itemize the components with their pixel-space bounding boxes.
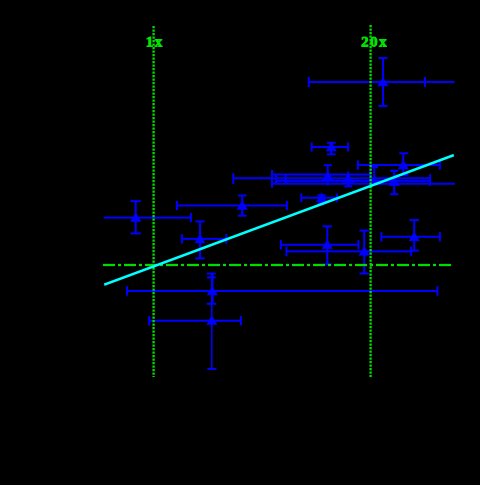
cluster line H4 [272,170,455,188]
horizontal reference dash-dot line [103,264,452,266]
data point D [358,153,440,175]
data point F [182,221,226,258]
data point H [381,220,440,251]
reference vertical line 1x [152,26,154,377]
data point A [309,58,455,106]
data point E2 [104,201,191,233]
svg-text:1x: 1x [146,34,164,50]
cluster point C3 [370,167,378,184]
cluster point E [390,171,398,194]
cyan trend line [104,155,454,285]
data point I [127,274,437,304]
data point G1 [281,226,359,264]
cluster point C1 [324,165,332,185]
data point G2 [286,231,411,274]
cluster line H1 [272,170,370,179]
data point K [301,193,337,203]
cluster line H3 [276,174,430,186]
cluster point C2 [344,172,352,187]
data point J [149,304,241,369]
svg-text:20x: 20x [361,35,388,51]
cluster line H2 [233,173,430,184]
reference vertical line 20x [369,25,371,377]
data point B [312,143,348,155]
data point D2 [177,196,287,216]
